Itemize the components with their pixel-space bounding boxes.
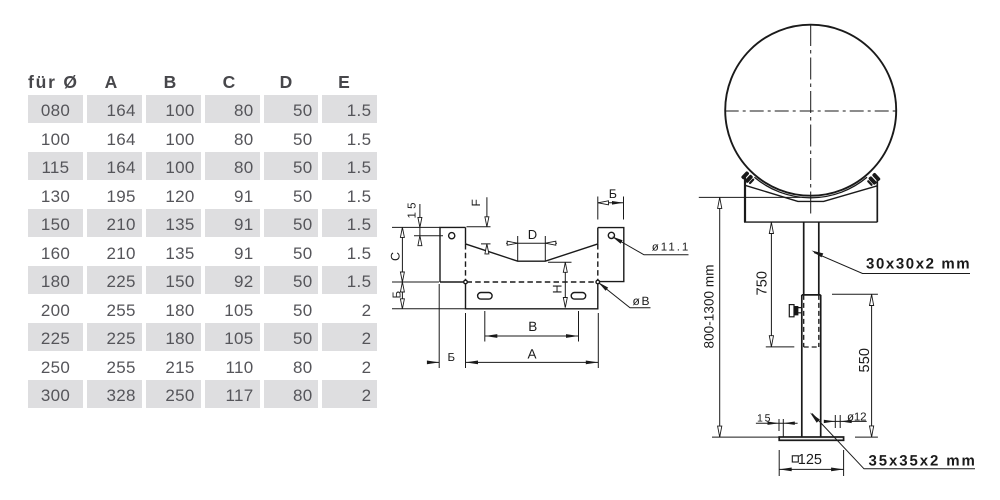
dim Б-left line (401, 282, 403, 309)
leader øB (600, 284, 651, 308)
svg-text:Б: Б (448, 352, 456, 364)
open arrows H dim (563, 262, 567, 272)
locking bolt (789, 305, 802, 317)
bracket right edge (876, 178, 878, 223)
dim Б-top-right ext+line (598, 197, 624, 220)
open arrow Б-top-right left (598, 201, 609, 205)
leader arrow øB (598, 282, 608, 291)
svg-text:B: B (528, 319, 537, 334)
arrow Б-top-right filled (612, 201, 624, 205)
bracket saddle V (745, 185, 877, 201)
post inner tube hidden (dashed) (804, 295, 819, 347)
dim F line (467, 197, 491, 254)
svg-text:Б: Б (392, 291, 404, 299)
dim 750 line + ext (766, 223, 795, 347)
arrows B dim (485, 334, 498, 338)
slot left (478, 293, 493, 300)
svg-text:F: F (469, 199, 483, 206)
base plate (779, 437, 843, 440)
leader arrow 35x35x2 (810, 413, 820, 423)
pipe circle (725, 25, 896, 196)
centerline horizontal (725, 110, 898, 112)
open arrows 550 (870, 295, 874, 306)
bracket bottom (744, 221, 877, 223)
leader arrow 30x30x2 (812, 251, 824, 258)
open arrows D dim (507, 241, 518, 245)
post outer tube 35x35 (802, 295, 821, 437)
table: size chart für Ø / A B C D E (28, 72, 79, 90)
clamp lug right (866, 172, 881, 187)
svg-text:ø11.1: ø11.1 (652, 242, 689, 254)
dim H line + ext (548, 262, 572, 307)
node circle right (596, 280, 600, 284)
svg-text:H: H (551, 284, 565, 293)
bracket left edge (744, 178, 746, 223)
leader 35x35x2 underline (812, 414, 975, 469)
open arrows 750 (769, 223, 773, 234)
saddle V edge (466, 244, 598, 261)
extension lines left side (392, 227, 465, 308)
dim 550 line + ext (832, 294, 878, 437)
body (bottom flap) (466, 282, 598, 309)
svg-text:15: 15 (407, 203, 419, 219)
arrows 15 (768, 422, 780, 425)
open arrows F dim (485, 217, 489, 227)
svg-text:35x35x2 mm: 35x35x2 mm (869, 453, 977, 470)
right tab (598, 228, 624, 282)
leader 30x30x2 underline (814, 253, 970, 274)
hole right tab (608, 232, 614, 238)
svg-text:550: 550 (857, 348, 873, 373)
open arrows 800-1300 (718, 197, 722, 208)
dim ø12 line + ticks (824, 415, 867, 428)
bracket flat-pattern outline: left tab (440, 227, 466, 282)
svg-text:Б: Б (609, 187, 617, 201)
arrows ø12 (824, 420, 836, 423)
svg-text:C: C (389, 252, 403, 261)
leader arrow ø11.1 (612, 237, 623, 244)
leader ø11.1 (613, 237, 689, 255)
slot right (571, 293, 586, 300)
svg-text:ø12: ø12 (847, 412, 867, 424)
dim □125 line + ext (779, 450, 843, 476)
open arrows 15 dim (418, 217, 422, 227)
open arrows Б-left dim (400, 282, 404, 292)
arrows □125 (779, 468, 792, 472)
dim D ext+line (506, 236, 557, 261)
clamp band arc (754, 177, 867, 197)
dim 15 line + ticks (756, 419, 798, 437)
label □125 (792, 452, 822, 468)
clamp lug left (741, 171, 756, 186)
dim 15 line (419, 204, 421, 246)
svg-text:D: D (528, 227, 537, 242)
svg-text:15: 15 (757, 412, 771, 424)
svg-text:125: 125 (798, 452, 822, 468)
arrows A dim (466, 361, 479, 365)
hole left tab (449, 233, 455, 239)
dim C line (401, 227, 403, 282)
centerline vertical (810, 24, 812, 214)
post inner tube 30x30 (804, 222, 819, 295)
svg-text:800-1300 mm: 800-1300 mm (702, 265, 717, 349)
svg-text:A: A (528, 347, 537, 362)
fold lines (dashed) (466, 244, 598, 282)
dim B ext+line (485, 311, 579, 342)
dim 800-1300 line + ext (699, 197, 801, 437)
svg-text:750: 750 (755, 271, 771, 296)
svg-text:øB: øB (633, 294, 650, 308)
svg-text:30x30x2 mm: 30x30x2 mm (866, 256, 971, 273)
dim Б-bottom ext+line (427, 284, 439, 368)
arrow Б-bottom (427, 361, 439, 365)
node circle left (464, 280, 468, 284)
dim A ext+line (466, 313, 599, 368)
open arrows C dim (400, 227, 404, 237)
